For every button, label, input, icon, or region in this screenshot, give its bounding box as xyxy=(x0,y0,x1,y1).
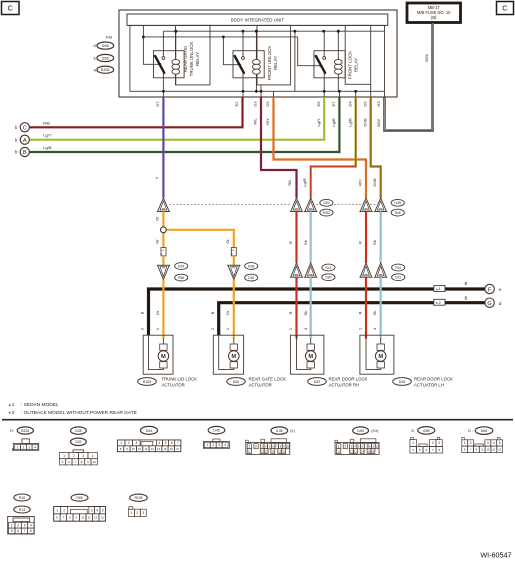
svg-text:R/L: R/L xyxy=(287,179,292,186)
svg-text:7: 7 xyxy=(63,516,65,520)
svg-text:D34: D34 xyxy=(146,429,153,433)
svg-text:12: 12 xyxy=(261,450,264,453)
svg-text:3: 3 xyxy=(487,441,489,445)
svg-text:REAR DOOR LOCK: REAR DOOR LOCK xyxy=(329,377,368,382)
svg-text:*: * xyxy=(160,253,165,255)
svg-text:D5: D5 xyxy=(265,101,270,107)
svg-text:C: C xyxy=(23,126,27,132)
svg-text:D22: D22 xyxy=(395,276,401,280)
svg-text:i266: i266 xyxy=(102,44,109,48)
svg-text:4: 4 xyxy=(34,445,36,449)
svg-text:1: 1 xyxy=(12,402,15,408)
svg-text:b: b xyxy=(15,150,18,155)
svg-text:12: 12 xyxy=(498,448,502,452)
svg-text:3: 3 xyxy=(218,443,220,447)
svg-text:1: 1 xyxy=(131,511,133,515)
svg-text:D32: D32 xyxy=(75,440,81,444)
svg-text:D45: D45 xyxy=(233,380,240,384)
svg-text:4: 4 xyxy=(372,327,377,330)
svg-text:8: 8 xyxy=(369,445,371,448)
svg-text:R/B: R/B xyxy=(43,120,50,125)
svg-text:3: 3 xyxy=(438,441,440,445)
svg-text:FRONT LOCK: FRONT LOCK xyxy=(348,51,353,79)
svg-text:i265: i265 xyxy=(423,429,430,433)
svg-text:15: 15 xyxy=(368,450,371,453)
svg-text:3: 3 xyxy=(28,445,30,449)
svg-text:RELAY: RELAY xyxy=(354,58,359,72)
svg-text:12: 12 xyxy=(350,450,353,453)
svg-text:Or: Or xyxy=(155,239,160,244)
svg-text:R/Y: R/Y xyxy=(265,118,270,125)
svg-text:7: 7 xyxy=(24,529,26,533)
svg-text:3: 3 xyxy=(142,511,144,515)
svg-text:R24: R24 xyxy=(178,264,184,268)
svg-text:ACTUATOR LH: ACTUATOR LH xyxy=(414,383,444,388)
svg-text:Or: Or xyxy=(155,216,160,221)
svg-text:2: 2 xyxy=(12,410,15,416)
svg-text:WI-60547: WI-60547 xyxy=(480,551,511,560)
svg-text:2: 2 xyxy=(212,443,214,447)
svg-text:8: 8 xyxy=(30,529,32,533)
svg-text:B: B xyxy=(465,281,468,286)
svg-text:7: 7 xyxy=(74,460,76,464)
svg-text:D3: D3 xyxy=(253,101,258,107)
svg-text:7: 7 xyxy=(432,448,434,452)
svg-text:7: 7 xyxy=(177,441,179,445)
svg-text:G: G xyxy=(487,301,491,307)
svg-text:M: M xyxy=(231,354,236,360)
svg-text:R105: R105 xyxy=(134,496,142,500)
svg-text:b: b xyxy=(15,137,18,142)
svg-text:5: 5 xyxy=(269,445,271,448)
svg-text:R66: R66 xyxy=(76,496,82,500)
svg-text:3: 3 xyxy=(91,508,93,512)
svg-text:2: 2 xyxy=(140,327,145,330)
svg-text:15: 15 xyxy=(278,450,281,453)
svg-text:2: 2 xyxy=(231,249,235,251)
svg-text:3: 3 xyxy=(135,441,137,445)
svg-text:6: 6 xyxy=(68,460,70,464)
svg-text:Lg/B: Lg/B xyxy=(43,145,52,150)
svg-text:16: 16 xyxy=(372,450,375,453)
svg-text:e: e xyxy=(499,287,502,292)
svg-text:Lg/Y: Lg/Y xyxy=(316,118,321,127)
svg-text:2: 2 xyxy=(439,300,442,305)
svg-text:11: 11 xyxy=(248,450,251,453)
svg-text:7: 7 xyxy=(365,445,367,448)
svg-text:5: 5 xyxy=(499,441,501,445)
svg-text:TRUNK LID LOCK: TRUNK LID LOCK xyxy=(162,377,198,382)
svg-text:2: 2 xyxy=(470,441,472,445)
svg-text:R48: R48 xyxy=(395,211,401,215)
svg-text:R: R xyxy=(288,311,293,314)
svg-text:ACTUATOR: ACTUATOR xyxy=(249,383,272,388)
svg-text:FRONT UNLOCK: FRONT UNLOCK xyxy=(267,46,272,81)
svg-text:4: 4 xyxy=(354,445,356,448)
svg-text:4: 4 xyxy=(265,445,267,448)
svg-text:R/Y: R/Y xyxy=(357,179,362,186)
svg-text:1: 1 xyxy=(63,454,65,458)
svg-text:Or/B: Or/B xyxy=(362,118,367,127)
svg-text:b: b xyxy=(15,125,18,130)
svg-text:R105: R105 xyxy=(143,380,152,384)
svg-text:R: R xyxy=(357,241,362,244)
svg-text:i154: i154 xyxy=(357,429,364,433)
svg-text:16: 16 xyxy=(170,447,174,451)
svg-text:1: 1 xyxy=(11,523,13,527)
svg-text:B: B xyxy=(465,296,468,301)
svg-text:14: 14 xyxy=(157,447,161,451)
svg-text:: OUTBACK MODEL WITHOUT POWER: : OUTBACK MODEL WITHOUT POWER REAR GATE xyxy=(21,410,137,416)
svg-text:H3: H3 xyxy=(376,101,381,107)
svg-text:RELAY: RELAY xyxy=(195,52,200,66)
svg-text:3: 3 xyxy=(24,523,26,527)
svg-text:(B): (B) xyxy=(431,15,437,20)
svg-text:i265: i265 xyxy=(102,56,109,60)
svg-text:R66: R66 xyxy=(178,276,184,280)
svg-text:R: R xyxy=(288,241,293,244)
svg-text:6: 6 xyxy=(56,516,58,520)
svg-text:13: 13 xyxy=(354,450,357,453)
svg-text:16: 16 xyxy=(282,450,285,453)
svg-text:4: 4 xyxy=(92,454,94,458)
svg-text:R10: R10 xyxy=(19,496,25,500)
svg-text:i154: i154 xyxy=(323,201,330,205)
svg-text:8: 8 xyxy=(69,516,71,520)
svg-text:Sb: Sb xyxy=(372,239,377,245)
svg-text:D45: D45 xyxy=(213,429,219,433)
svg-text:9: 9 xyxy=(126,447,128,451)
svg-text:1: 1 xyxy=(357,327,362,330)
svg-text:8: 8 xyxy=(81,460,83,464)
svg-text:Sb: Sb xyxy=(303,239,308,245)
svg-text:11: 11 xyxy=(138,447,141,451)
svg-text:1: 1 xyxy=(464,441,466,445)
svg-text:C: C xyxy=(502,4,508,13)
svg-text:Lg/R: Lg/R xyxy=(302,178,307,187)
svg-text:15: 15 xyxy=(163,447,167,451)
svg-text:Sb: Sb xyxy=(303,310,308,316)
svg-text:12: 12 xyxy=(144,447,148,451)
svg-text:11: 11 xyxy=(337,450,340,453)
svg-text:1: 1 xyxy=(17,445,19,449)
svg-text:REAR DOOR LOCK: REAR DOOR LOCK xyxy=(414,377,453,382)
svg-text:D34: D34 xyxy=(248,276,254,280)
svg-text:d: d xyxy=(499,301,502,306)
svg-text:10: 10 xyxy=(81,516,85,520)
svg-text:5: 5 xyxy=(62,460,64,464)
svg-text:ACTUATOR: ACTUATOR xyxy=(162,383,185,388)
svg-text:RELAY: RELAY xyxy=(273,56,278,70)
svg-text:8: 8 xyxy=(120,447,122,451)
svg-text:C: C xyxy=(7,4,13,13)
svg-text:R332: R332 xyxy=(323,211,331,215)
svg-text:E:: E: xyxy=(412,429,416,433)
svg-text:1: 1 xyxy=(288,327,293,330)
svg-text:1: 1 xyxy=(161,249,165,251)
svg-text:B152: B152 xyxy=(21,429,29,433)
svg-text:6: 6 xyxy=(17,529,19,533)
svg-text:1: 1 xyxy=(120,441,122,445)
svg-text:1: 1 xyxy=(412,441,414,445)
svg-text:4: 4 xyxy=(96,508,98,512)
svg-text:B: B xyxy=(140,311,145,314)
svg-text:i266: i266 xyxy=(481,429,488,433)
svg-text:REAR GATE/: REAR GATE/ xyxy=(183,45,188,72)
svg-text:1: 1 xyxy=(248,444,250,448)
svg-text:9: 9 xyxy=(373,445,375,448)
svg-text:3: 3 xyxy=(261,445,263,448)
svg-text:(L): (L) xyxy=(290,428,296,433)
svg-text:1: 1 xyxy=(206,443,208,447)
svg-text:11: 11 xyxy=(88,516,91,520)
svg-text:8: 8 xyxy=(439,448,441,452)
svg-text:6: 6 xyxy=(425,448,427,452)
svg-text:2: 2 xyxy=(128,441,130,445)
svg-text:3: 3 xyxy=(351,445,353,448)
svg-text:13: 13 xyxy=(265,450,268,453)
svg-text:14: 14 xyxy=(361,450,364,453)
svg-text:R10: R10 xyxy=(395,266,401,270)
svg-text:i135: i135 xyxy=(276,429,283,433)
svg-text:R13: R13 xyxy=(19,508,25,512)
svg-text:E7: E7 xyxy=(331,101,336,107)
svg-text:i135: i135 xyxy=(394,201,401,205)
svg-text:D4: D4 xyxy=(347,101,352,107)
svg-text:8: 8 xyxy=(476,448,478,452)
svg-text:6: 6 xyxy=(171,441,173,445)
svg-text:D7: D7 xyxy=(155,101,160,107)
svg-text:: SEDAN MODEL: : SEDAN MODEL xyxy=(21,402,59,408)
svg-text:2: 2 xyxy=(23,445,25,449)
svg-text:H:: H: xyxy=(10,429,14,433)
svg-text:5: 5 xyxy=(102,508,104,512)
svg-text:1: 1 xyxy=(338,444,340,448)
svg-text:3: 3 xyxy=(82,454,84,458)
svg-text:4: 4 xyxy=(303,327,308,330)
svg-text:B: B xyxy=(210,311,215,314)
svg-text:F/B: F/B xyxy=(106,35,113,40)
svg-text:4: 4 xyxy=(224,443,226,447)
svg-text:Or: Or xyxy=(155,310,160,315)
svg-text:13: 13 xyxy=(101,516,105,520)
svg-text:5: 5 xyxy=(165,441,167,445)
svg-text:2: 2 xyxy=(73,454,75,458)
svg-text:2: 2 xyxy=(344,444,346,448)
svg-text:D20: D20 xyxy=(325,276,331,280)
svg-text:R13: R13 xyxy=(325,266,331,270)
svg-text:B152: B152 xyxy=(101,68,110,72)
svg-text:M: M xyxy=(161,354,166,360)
svg-text:8: 8 xyxy=(280,445,282,448)
svg-text:1: 1 xyxy=(56,508,58,512)
svg-text:TRUNK UNLOCK: TRUNK UNLOCK xyxy=(189,42,194,77)
svg-text:D32: D32 xyxy=(314,380,321,384)
svg-text:2: 2 xyxy=(255,444,257,448)
svg-text:6: 6 xyxy=(464,448,466,452)
svg-text:5: 5 xyxy=(358,445,360,448)
svg-text:D28: D28 xyxy=(399,380,406,384)
svg-text:4: 4 xyxy=(159,441,161,445)
svg-text:1: 1 xyxy=(225,327,230,330)
svg-text:10: 10 xyxy=(132,447,136,451)
svg-text:R: R xyxy=(357,311,362,314)
svg-text:E2: E2 xyxy=(234,101,239,107)
svg-text:4: 4 xyxy=(30,523,32,527)
svg-text:Or: Or xyxy=(225,310,230,315)
svg-text:D :: D : xyxy=(468,429,473,433)
svg-text:A: A xyxy=(23,138,27,144)
svg-text:2: 2 xyxy=(432,441,434,445)
svg-text:2: 2 xyxy=(136,511,138,515)
svg-text:Or/B: Or/B xyxy=(372,178,377,187)
svg-text:6: 6 xyxy=(362,445,364,448)
svg-text:M: M xyxy=(378,354,383,360)
svg-text:V: V xyxy=(154,176,159,179)
svg-text:R/L: R/L xyxy=(253,118,258,125)
svg-text:Or: Or xyxy=(225,239,230,244)
svg-text:9: 9 xyxy=(283,445,285,448)
svg-text:9: 9 xyxy=(76,516,78,520)
svg-text:6: 6 xyxy=(272,445,274,448)
svg-text:14: 14 xyxy=(271,450,274,453)
svg-text:*: * xyxy=(230,253,235,255)
svg-text:E6: E6 xyxy=(316,101,321,107)
svg-text:D6: D6 xyxy=(362,101,367,107)
svg-text:ACTUATOR RH: ACTUATOR RH xyxy=(329,383,360,388)
svg-text:R38: R38 xyxy=(248,264,254,268)
svg-text:2: 2 xyxy=(210,327,215,330)
svg-text:B/W: B/W xyxy=(424,54,429,62)
svg-text:10: 10 xyxy=(486,448,490,452)
svg-text:9: 9 xyxy=(481,448,483,452)
svg-text:D28: D28 xyxy=(75,429,81,433)
svg-text:(Gr): (Gr) xyxy=(371,428,379,433)
svg-text:M: M xyxy=(308,354,313,360)
svg-text:13: 13 xyxy=(151,447,155,451)
svg-text:1: 1 xyxy=(155,327,160,330)
svg-text:5: 5 xyxy=(11,529,13,533)
svg-text:2: 2 xyxy=(63,508,65,512)
svg-text:Sb: Sb xyxy=(372,310,377,316)
svg-text:4: 4 xyxy=(493,441,495,445)
svg-text:REAR GATE LOCK: REAR GATE LOCK xyxy=(249,377,287,382)
svg-text:B: B xyxy=(23,150,27,156)
svg-text:7: 7 xyxy=(276,445,278,448)
svg-text:B/W: B/W xyxy=(376,119,381,127)
svg-text:2: 2 xyxy=(17,523,19,527)
svg-text:10: 10 xyxy=(93,460,97,464)
svg-text:5: 5 xyxy=(419,448,421,452)
svg-text:Lg/B: Lg/B xyxy=(331,118,336,127)
svg-text:9: 9 xyxy=(87,460,89,464)
svg-text:Lg/Y: Lg/Y xyxy=(43,133,52,138)
svg-text:7: 7 xyxy=(470,448,472,452)
svg-text:Lg/R: Lg/R xyxy=(347,118,352,127)
svg-text:11: 11 xyxy=(492,448,495,452)
svg-text:1: 1 xyxy=(439,286,442,291)
svg-text:4: 4 xyxy=(412,448,414,452)
svg-text:17: 17 xyxy=(176,447,180,451)
svg-text:12: 12 xyxy=(94,516,98,520)
svg-text:BODY INTEGRATED UNIT: BODY INTEGRATED UNIT xyxy=(231,18,284,23)
svg-text:F: F xyxy=(488,287,492,293)
